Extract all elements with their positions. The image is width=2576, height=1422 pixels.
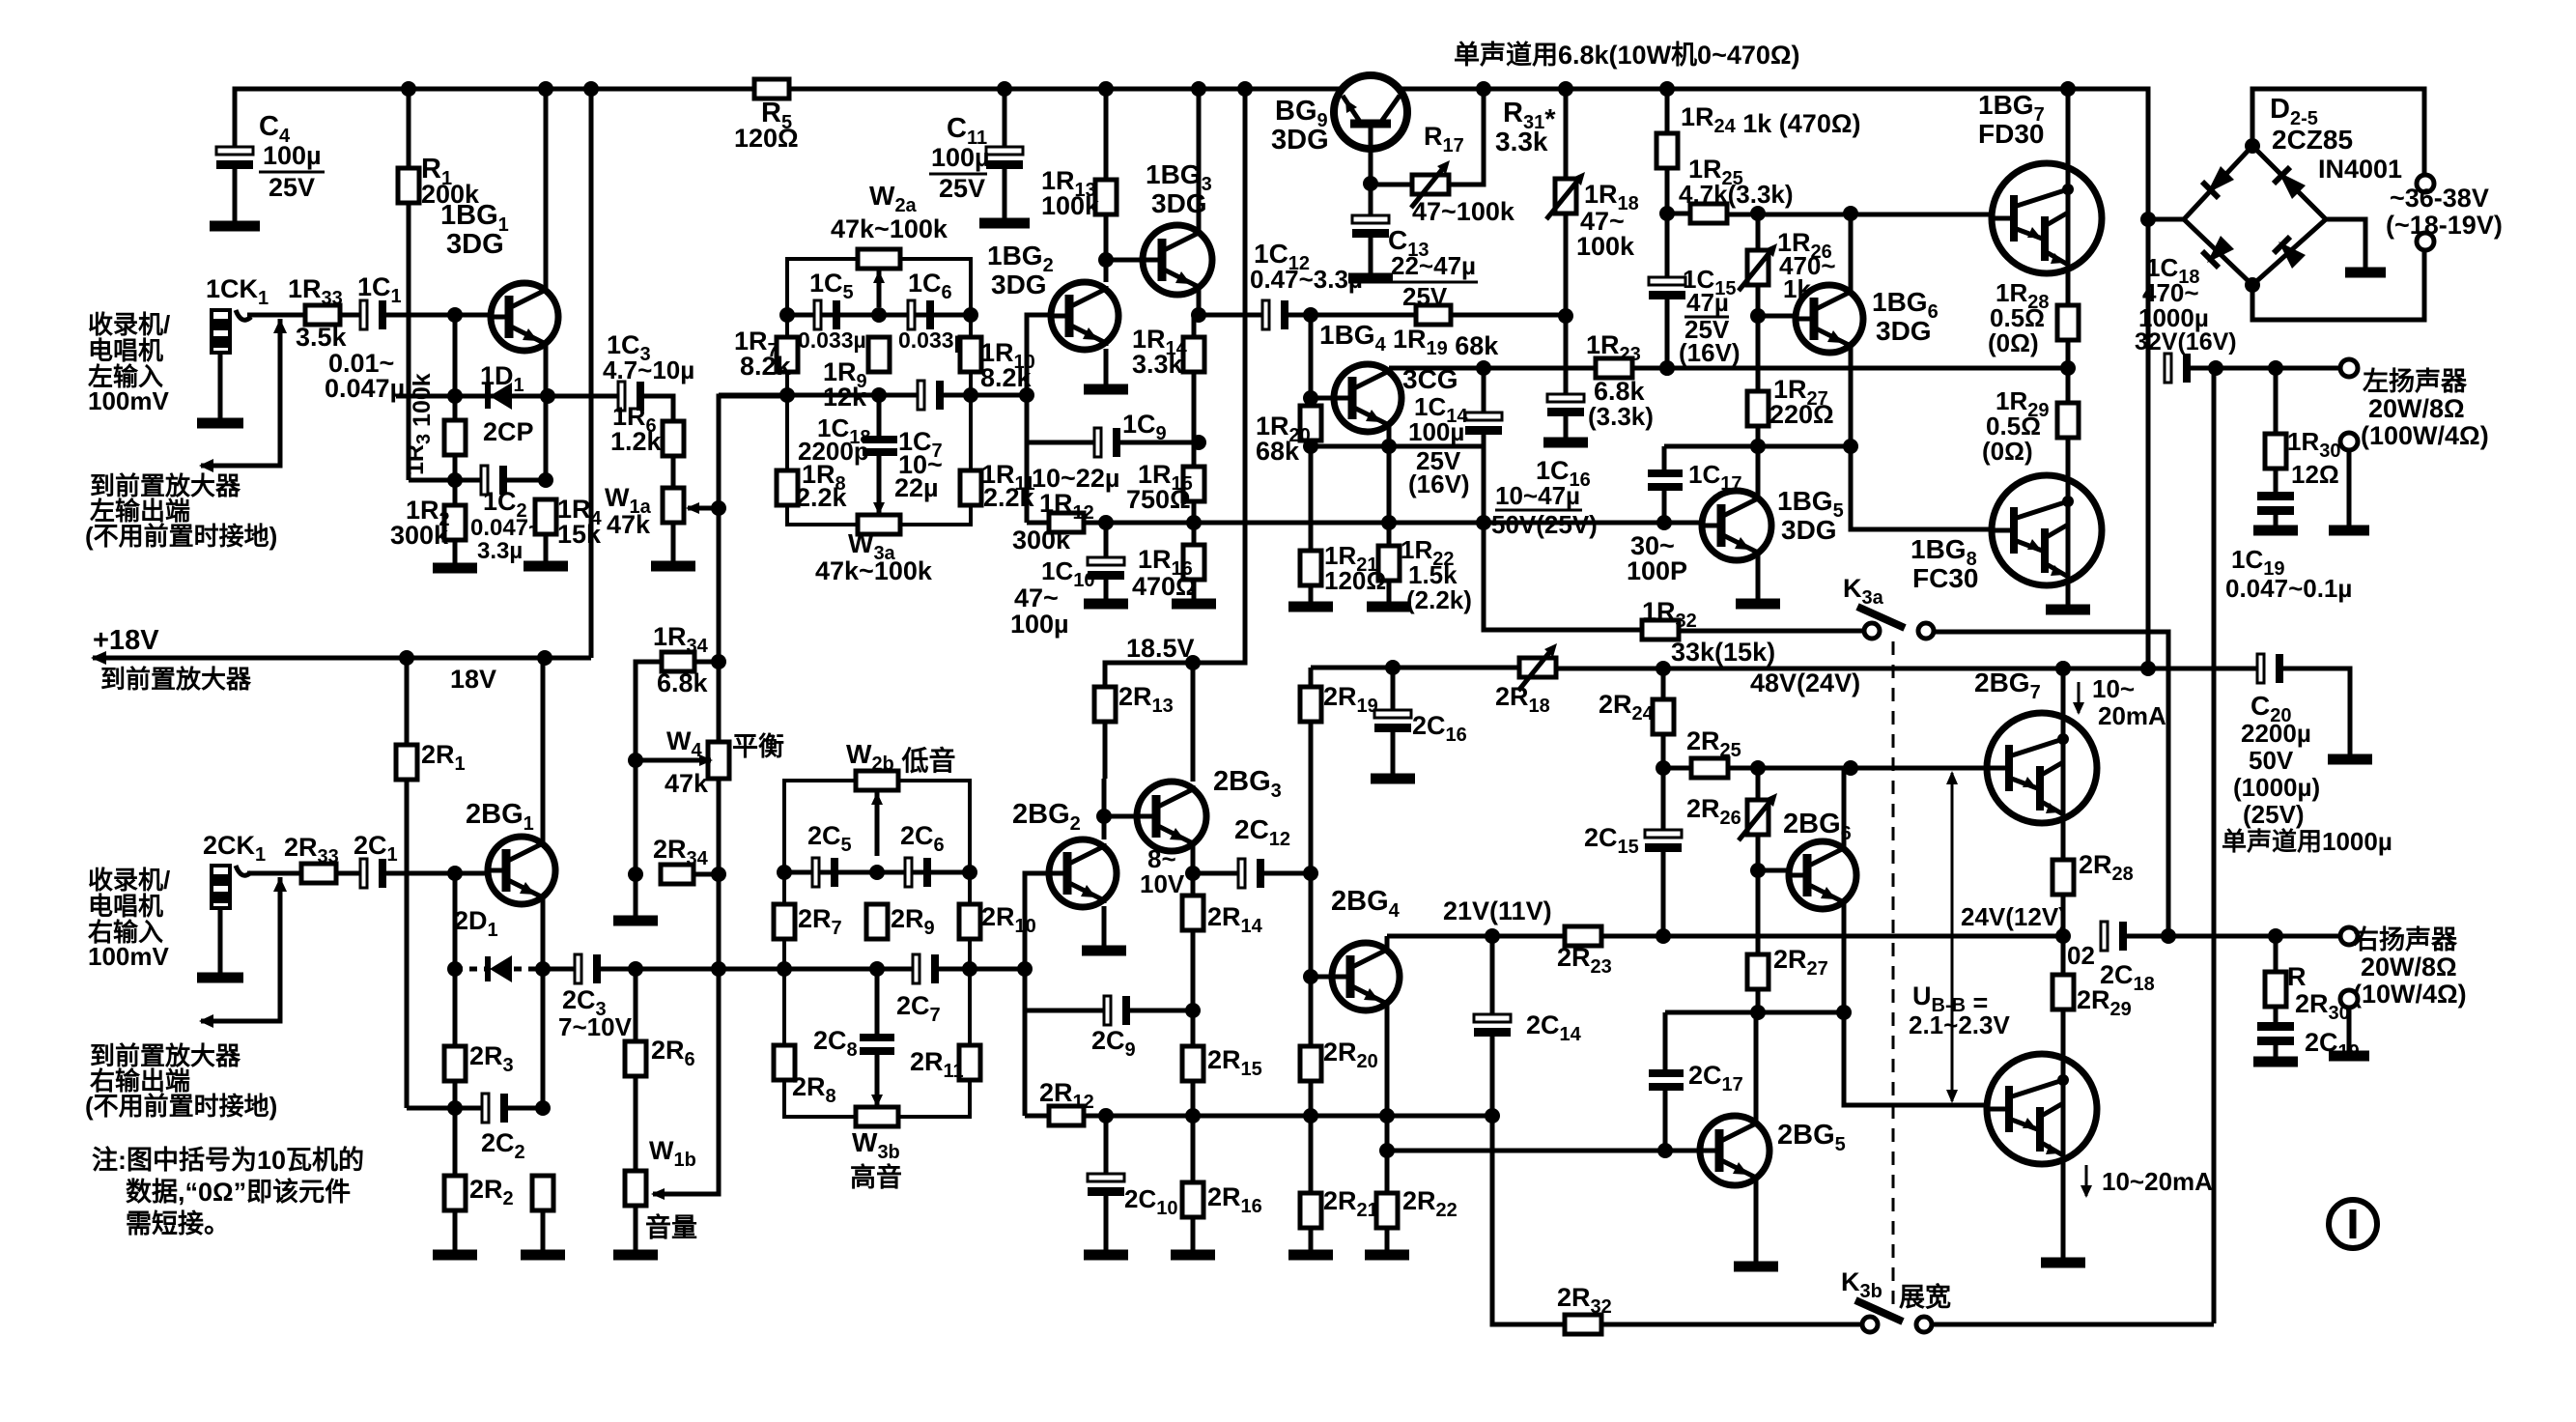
transistor 1BG4 xyxy=(1334,364,1401,432)
junction (1419,190) xyxy=(1363,176,1378,191)
resistor 1R14 xyxy=(1183,337,1204,372)
svg-text:18.5V: 18.5V xyxy=(1126,634,1195,663)
junction (1722,692) xyxy=(1656,661,1671,676)
junction (1005,326) xyxy=(963,307,978,323)
svg-text:100mV: 100mV xyxy=(88,386,169,415)
symbol circled 1 xyxy=(2329,1200,2377,1248)
ground 1BG2 xyxy=(1084,384,1128,395)
svg-text:(25V): (25V) xyxy=(2243,800,2305,829)
wire 1BG1 emitter xyxy=(544,347,549,480)
wire node line ch2 xyxy=(407,1106,483,1111)
svg-text:100µ: 100µ xyxy=(931,143,990,172)
switch K3b contact right xyxy=(1916,1317,1932,1332)
wire 1R25 line xyxy=(1667,212,1690,216)
switch K3b lever xyxy=(1855,1300,1903,1322)
resistor 1R9 xyxy=(868,337,890,372)
arrow to preamp left out xyxy=(201,319,280,466)
junction (1820,462) xyxy=(1750,439,1766,454)
junction (1621,327) xyxy=(1558,308,1573,324)
wire to 2BG8 base xyxy=(1844,1012,1992,1105)
arrow to preamp right out xyxy=(201,877,280,1021)
wire 2BG4 collector down xyxy=(1385,1003,1390,1151)
junction (658,1003) xyxy=(628,961,643,977)
label 10-20mA top xyxy=(2073,702,2084,715)
capacitor 1C2 xyxy=(481,466,488,495)
wire output to 2R29 xyxy=(2061,936,2066,975)
potentiometer W3a xyxy=(858,515,900,534)
wire left output to K3b line xyxy=(2212,368,2217,1323)
svg-text:22µ: 22µ xyxy=(894,473,939,502)
wire R17 line xyxy=(1371,183,1412,187)
junction (1241,326) xyxy=(1191,307,1206,323)
wire dashed switch link xyxy=(1892,641,1895,1314)
wire mid line ch2 xyxy=(719,967,914,972)
wire BG9 base xyxy=(1369,128,1373,184)
ground left speaker xyxy=(2329,526,2369,536)
svg-text:3DG: 3DG xyxy=(446,229,504,260)
resistor 1R3 xyxy=(444,420,466,455)
junction (1722,795) xyxy=(1656,760,1671,776)
ground 1R16 xyxy=(1172,599,1216,610)
transistor 1BG2 xyxy=(1051,282,1118,350)
junction (1438,541) xyxy=(1381,515,1397,530)
junction (812,1003) xyxy=(777,961,792,977)
resistor 2R27 xyxy=(1747,954,1769,989)
wire 1C14 to feedback xyxy=(1484,446,1642,630)
ground 2BG8 xyxy=(2041,1258,2085,1268)
wire 1BG6 emitter xyxy=(1849,349,1854,446)
resistor 2R14 xyxy=(1182,896,1203,930)
resistor 2R13 xyxy=(1094,687,1116,722)
capacitor 1C5 xyxy=(814,300,821,329)
svg-text:15k: 15k xyxy=(557,520,602,549)
transistor 2BG7 xyxy=(1987,713,2097,823)
switch K3a lever xyxy=(1857,607,1905,628)
wire R1 to node xyxy=(407,203,411,480)
resistor 1R25 xyxy=(1690,204,1727,223)
wire rspeaker- to ground xyxy=(2347,1008,2352,1053)
wire 1BG2 collector xyxy=(1104,215,1109,282)
wire 1BG5 collector xyxy=(1756,446,1761,497)
junction (908,903) xyxy=(869,865,885,880)
junction (2224,692) xyxy=(2140,661,2156,676)
svg-text:100µ: 100µ xyxy=(1408,417,1464,446)
capacitor 1C10 xyxy=(1088,557,1124,565)
junction (562,1003) xyxy=(535,961,551,977)
ground 1C10 xyxy=(1084,599,1128,610)
capacitor 2C10 xyxy=(1088,1174,1124,1181)
svg-text:100k: 100k xyxy=(1576,232,1635,261)
wire rail to 2BG7 xyxy=(2061,668,2066,713)
wire output to 1R29 xyxy=(2066,368,2071,403)
svg-text:3DG: 3DG xyxy=(1781,515,1837,545)
capacitor 1C15 xyxy=(1665,213,1670,280)
ground C20 xyxy=(2328,754,2372,765)
resistor 1R33 xyxy=(305,305,340,325)
svg-text:1.2k: 1.2k xyxy=(610,427,663,456)
resistor 1R13 xyxy=(1095,180,1117,214)
svg-text:10~47µ: 10~47µ xyxy=(1495,481,1580,510)
junction (744,905) xyxy=(711,867,726,882)
svg-text:(不用前置时接地): (不用前置时接地) xyxy=(85,1092,277,1121)
wire 1BG5 emitter xyxy=(1756,556,1761,601)
junction (565,497) xyxy=(538,472,553,488)
resistor 1R28 xyxy=(2057,305,2079,340)
svg-text:(0Ω): (0Ω) xyxy=(1988,328,2039,357)
capacitor 1C15 xyxy=(1649,277,1685,285)
wire output rail ch1 xyxy=(1389,366,1596,371)
capacitor 2C18 xyxy=(2101,922,2108,951)
junction (1820,221) xyxy=(1750,206,1766,221)
wire 2BG1 collector xyxy=(541,658,546,840)
capacitor 2C8 xyxy=(860,1034,894,1041)
capacitor 2C5 xyxy=(812,858,819,887)
junction (815,326) xyxy=(779,307,795,323)
resistor 2R34 xyxy=(661,865,694,884)
resistor 2R32 xyxy=(1565,1315,1601,1334)
wire to 2BG3 base xyxy=(1104,814,1141,819)
capacitor 1C16 xyxy=(1547,394,1584,402)
capacitor 2C10 xyxy=(1104,1116,1109,1177)
junction (2332,151) xyxy=(2245,138,2260,154)
svg-text:2.1~2.3V: 2.1~2.3V xyxy=(1909,1010,2010,1039)
resistor 2R12 xyxy=(1049,1106,1084,1125)
junction (2294,381) xyxy=(2208,360,2223,376)
junction (744,1003) xyxy=(711,961,726,977)
junction (2141,381) xyxy=(2060,360,2076,376)
wire 1C1 to 1BG1 base xyxy=(384,313,509,318)
junction (1357,1011) xyxy=(1303,969,1318,984)
junction (1357,326) xyxy=(1303,307,1318,323)
wire 1R3 to node xyxy=(453,455,458,480)
svg-text:3CG: 3CG xyxy=(1402,364,1458,394)
junction (1357,1155) xyxy=(1303,1108,1318,1123)
svg-text:(100W/4Ω): (100W/4Ω) xyxy=(2361,421,2489,450)
ground 2BG2 xyxy=(1082,946,1126,956)
svg-text:10V: 10V xyxy=(1140,869,1185,898)
svg-text:3.3k: 3.3k xyxy=(1132,350,1184,379)
ground balance network xyxy=(613,916,658,926)
svg-text:4.7k(3.3k): 4.7k(3.3k) xyxy=(1679,180,1794,209)
wire top supply bus xyxy=(235,89,2148,663)
wire 2R19 to 2R20 xyxy=(1309,873,1314,1046)
resistor 1R2 xyxy=(444,505,466,540)
svg-text:0.047~0.1µ: 0.047~0.1µ xyxy=(2225,574,2352,603)
wire 1C3 to 1R6 xyxy=(640,396,673,421)
potentiometer W2a xyxy=(858,249,900,269)
junction (2136,969) xyxy=(2055,928,2071,944)
resistor 1R23 xyxy=(1596,358,1632,378)
svg-text:3.3µ: 3.3µ xyxy=(477,538,523,564)
resistor 2R29 xyxy=(2052,975,2074,1010)
svg-text:FD30: FD30 xyxy=(1978,119,2044,149)
svg-text:02: 02 xyxy=(2067,941,2095,970)
wire 1BG7 emitter to 1R28 xyxy=(2066,273,2071,305)
wire 1R26 to 1R27 xyxy=(1756,316,1761,391)
capacitor C11 xyxy=(986,147,1023,155)
wire bridge top feed xyxy=(2252,89,2424,175)
junction (1145,1155) xyxy=(1098,1108,1114,1123)
wire 1BG4 base column xyxy=(1309,315,1314,398)
junction (910,326) xyxy=(871,307,887,323)
wire 1R34 branch xyxy=(636,662,662,918)
transistor 2BG6 xyxy=(1789,841,1856,909)
svg-text:47~: 47~ xyxy=(1014,583,1059,612)
svg-text:20W/8Ω: 20W/8Ω xyxy=(2368,394,2465,423)
capacitor 2C14 xyxy=(1474,1014,1511,1022)
junction (1241,92) xyxy=(1191,81,1206,97)
wire bus to C11 xyxy=(1003,89,1007,150)
svg-text:高音: 高音 xyxy=(850,1162,902,1192)
wire 2BG5 collector xyxy=(1754,1012,1759,1122)
svg-text:右扬声器: 右扬声器 xyxy=(2353,925,2458,954)
wire to 1BG3 base xyxy=(1106,258,1146,263)
resistor 2R22 xyxy=(1376,1193,1398,1228)
svg-text:单声道用6.8k(10W机0~470Ω): 单声道用6.8k(10W机0~470Ω) xyxy=(1454,40,1800,70)
wire 2BG1 emitter xyxy=(541,900,546,1108)
capacitor 2C7 xyxy=(913,954,920,983)
ground 2C19 xyxy=(2253,1057,2298,1067)
capacitor 2C16 xyxy=(1374,710,1411,718)
resistor 1R21 xyxy=(1300,551,1321,585)
junction (744,685) xyxy=(711,654,726,669)
transistor 1BG6 xyxy=(1796,285,1863,353)
wire 2BG5 emitter xyxy=(1754,1181,1759,1264)
svg-text:20W/8Ω: 20W/8Ω xyxy=(2361,953,2457,981)
transistor 2BG1 xyxy=(488,837,555,904)
wire to 2R26 xyxy=(1756,768,1761,800)
wire 18.5V feed xyxy=(1105,89,1245,687)
capacitor 1C12 xyxy=(1262,300,1269,329)
capacitor 2C2 xyxy=(482,1094,489,1123)
junction (1916,795) xyxy=(1843,760,1858,776)
wire 1R18 to 1C16 xyxy=(1564,213,1569,397)
junction (2332,295) xyxy=(2245,277,2260,293)
svg-text:展宽: 展宽 xyxy=(1899,1282,1951,1312)
svg-text:48V(24V): 48V(24V) xyxy=(1750,668,1860,697)
wire 2BG3 emitter xyxy=(1191,847,1196,873)
wire jack to 1R33 xyxy=(247,313,305,318)
resistor 1R34 xyxy=(662,652,694,671)
resistor R5 xyxy=(754,79,789,99)
junction (423,92) xyxy=(401,81,416,97)
junction (1726,381) xyxy=(1659,360,1675,376)
ground 1R21 xyxy=(1288,602,1333,612)
junction (1004,1003) xyxy=(962,961,977,977)
wire tone network box ch1 xyxy=(787,259,971,525)
junction (1820,1048) xyxy=(1750,1005,1766,1020)
resistor 1R6 xyxy=(663,421,684,456)
wire y462 right segment xyxy=(1664,444,1851,449)
ground 1BG5 xyxy=(1736,599,1780,610)
svg-text:0.033µ: 0.033µ xyxy=(898,327,967,353)
switch K3a contact left xyxy=(1864,623,1880,639)
potentiometer 2R18 xyxy=(1519,658,1556,677)
junction (1820,327) xyxy=(1750,308,1766,324)
svg-text:47k: 47k xyxy=(607,510,651,539)
wire 1BG2 emitter xyxy=(1104,349,1109,386)
junction (1145,541) xyxy=(1098,515,1114,530)
svg-text:24V(12V): 24V(12V) xyxy=(1961,902,2067,931)
junction (1438,462) xyxy=(1381,439,1397,454)
wire 2R1 down xyxy=(405,780,410,1108)
svg-text:(16V): (16V) xyxy=(1679,338,1741,367)
junction (471,497) xyxy=(447,472,463,488)
svg-text:20mA: 20mA xyxy=(2098,701,2166,730)
svg-text:3DG: 3DG xyxy=(1271,125,1329,156)
junction (1545,969) xyxy=(1485,928,1500,944)
resistor 1R27 xyxy=(1747,391,1769,426)
potentiometer R17 xyxy=(1412,175,1449,194)
junction (1820,795) xyxy=(1750,760,1766,776)
svg-text:(10W/4Ω): (10W/4Ω) xyxy=(2353,980,2467,1009)
junction (1621,92) xyxy=(1558,81,1573,97)
svg-text:300k: 300k xyxy=(1012,526,1071,555)
wire y462 line xyxy=(1311,444,1484,449)
ground 1R22 xyxy=(1367,602,1411,612)
junction (1235,686) xyxy=(1185,655,1201,670)
wire 1D1 to 1C3 xyxy=(548,394,617,399)
wire to left speaker xyxy=(2189,366,2340,371)
potentiometer 2R26 xyxy=(1747,800,1769,835)
wire 2BG4 emitter up xyxy=(1385,936,1390,951)
wire 1R25 node to 1R26 xyxy=(1756,213,1761,250)
junction (815,409) xyxy=(779,387,795,403)
junction (1143,845) xyxy=(1096,809,1112,824)
wire mid line ch1 xyxy=(719,393,920,398)
wire 2BG7 emitter xyxy=(2061,823,2066,860)
label 10-20mA bottom xyxy=(2081,1185,2092,1198)
resistor 1R11 xyxy=(960,470,981,505)
wire tone network box ch2 xyxy=(784,781,970,1117)
junction (744,526) xyxy=(711,500,726,516)
wire 2BG3 emitter to 2C12 xyxy=(1193,871,1239,876)
label UB-B measurement xyxy=(1951,773,1954,1101)
junction (1545,1155) xyxy=(1485,1108,1500,1123)
wire 1C12 to 1R19 xyxy=(1287,313,1416,318)
junction (1145,92) xyxy=(1098,81,1114,97)
transistor 1BG3 xyxy=(1143,225,1212,295)
wire jack2 to ground xyxy=(218,908,223,975)
resistor 2R15 xyxy=(1182,1046,1203,1081)
junction (2136,692) xyxy=(2055,661,2071,676)
diode 1D1 2CP xyxy=(455,394,485,399)
wire 2R25 line xyxy=(1663,766,1691,771)
junction (1289,92) xyxy=(1237,81,1253,97)
junction (1909,1048) xyxy=(1836,1005,1852,1020)
wire 2BG3 emitter column xyxy=(1191,873,1196,896)
junction (1357,412) xyxy=(1303,390,1318,406)
svg-text:0.047~: 0.047~ xyxy=(470,515,542,541)
capacitor 2C15 xyxy=(1645,830,1682,838)
ground C11 xyxy=(979,218,1030,229)
wire 48V rail ch2 xyxy=(1311,666,1519,670)
resistor 1R29 xyxy=(2057,403,2079,438)
terminal left speaker+ xyxy=(2340,359,2358,377)
wire 1R4 to ground xyxy=(544,534,549,563)
wire 2R34 right xyxy=(694,872,719,877)
wire 2D1 to 2C3 xyxy=(543,967,574,972)
wire bridge right to ground xyxy=(2326,219,2365,270)
resistor 1R15 xyxy=(1183,467,1204,501)
svg-text:100mV: 100mV xyxy=(88,942,169,971)
potentiometer W2b xyxy=(856,771,898,790)
svg-text:22~47µ: 22~47µ xyxy=(1391,251,1476,280)
resistor 1R30 xyxy=(2274,368,2279,434)
svg-text:电唱机: 电唱机 xyxy=(88,336,163,365)
svg-text:0.47~3.3µ: 0.47~3.3µ xyxy=(1250,265,1363,294)
ground 2C16 xyxy=(1371,774,1415,784)
wire jack to ground xyxy=(218,353,223,419)
ground 1R4 xyxy=(524,561,568,572)
svg-text:IN4001: IN4001 xyxy=(2318,155,2402,184)
capacitor 1C6 xyxy=(908,300,915,329)
resistor 1R12 xyxy=(1049,513,1084,532)
svg-text:音量: 音量 xyxy=(645,1212,697,1242)
ground 2R16 xyxy=(1171,1250,1215,1261)
resistor 2R8 xyxy=(774,1045,795,1080)
wire K3a to right output xyxy=(1934,632,2168,936)
capacitor 2C1 xyxy=(360,859,367,888)
wire 2BG6 collector xyxy=(1842,768,1847,845)
ground 1BG8 xyxy=(2046,605,2090,615)
capacitor 2C3 xyxy=(575,954,581,983)
wire base drop column ch1 xyxy=(1027,315,1052,523)
wire 2BG6 emitter xyxy=(1842,905,1847,1012)
svg-text:120Ω: 120Ω xyxy=(1324,566,1386,595)
junction (908,1003) xyxy=(869,961,885,977)
junction (1236,541) xyxy=(1186,515,1202,530)
capacitor 1C14 xyxy=(1465,412,1502,420)
capacitor 1C9 xyxy=(1094,428,1101,457)
wire bus to 1R18 xyxy=(1564,89,1569,179)
junction (2136,692) xyxy=(2055,661,2071,676)
wire 2BG2 collector xyxy=(1102,779,1107,839)
svg-text:0.047µ: 0.047µ xyxy=(325,374,405,403)
svg-text:2CP: 2CP xyxy=(483,417,534,446)
svg-text:数据,“0Ω”即该元件: 数据,“0Ω”即该元件 xyxy=(126,1177,351,1207)
transistor 2BG3 xyxy=(1137,782,1206,851)
wire C4 to ground xyxy=(233,168,238,222)
wire rail to 2R24 xyxy=(1661,668,1666,699)
svg-text:100µ: 100µ xyxy=(1010,610,1069,639)
resistor 1R10 xyxy=(960,337,981,372)
ground 1R2 xyxy=(433,563,477,574)
capacitor 2C12 xyxy=(1238,859,1245,888)
junction (2141,92) xyxy=(2060,81,2076,97)
junction (1436,1191) xyxy=(1379,1143,1395,1158)
wire bus to 1R13 xyxy=(1104,89,1109,180)
resistor 2R24 xyxy=(1653,699,1674,734)
resistor 2R4 xyxy=(532,1176,553,1210)
resistor 1R4 xyxy=(535,499,556,534)
terminal right speaker+ xyxy=(2340,927,2358,945)
resistor 1R20 xyxy=(1300,406,1321,441)
junction (1536,381) xyxy=(1476,360,1491,376)
junction (1436,1155) xyxy=(1379,1108,1395,1123)
wire 1BG4 base xyxy=(1311,396,1337,401)
resistor 2R2 xyxy=(444,1176,466,1210)
svg-text:7~10V: 7~10V xyxy=(558,1012,633,1041)
transistor 2BG8 xyxy=(1987,1054,2097,1164)
resistor 2R16 xyxy=(1182,1182,1203,1217)
svg-text:21V(11V): 21V(11V) xyxy=(1443,896,1552,925)
capacitor 1C17 xyxy=(1648,469,1683,477)
svg-text:47~100k: 47~100k xyxy=(1412,197,1515,226)
wire 2C5 2C6 line xyxy=(784,870,970,875)
svg-text:2CZ85: 2CZ85 xyxy=(2272,125,2353,155)
wire base to C13 xyxy=(1369,184,1373,218)
